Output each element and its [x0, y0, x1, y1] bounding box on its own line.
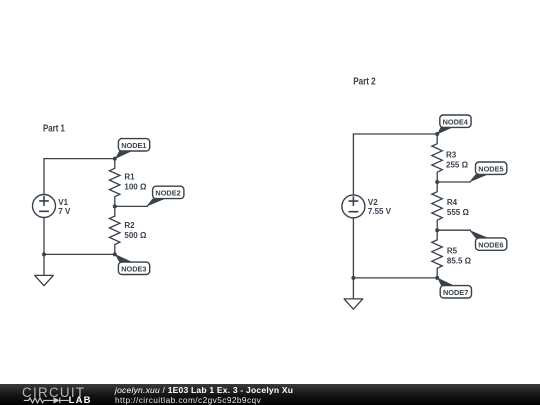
svg-text:255 Ω: 255 Ω — [446, 160, 469, 169]
svg-text:V1: V1 — [58, 198, 68, 207]
svg-text:7 V: 7 V — [58, 207, 71, 216]
svg-text:7.55 V: 7.55 V — [368, 207, 392, 216]
footer bar — [0, 384, 540, 405]
wire: left rail lower part 2 — [352, 218, 354, 278]
node flag NODE2 — [146, 186, 184, 207]
svg-text:R3: R3 — [446, 151, 457, 160]
svg-text:V2: V2 — [368, 198, 378, 207]
wire: bottom rail part 2 — [353, 277, 437, 279]
svg-text:NODE5: NODE5 — [478, 165, 504, 174]
svg-text:555 Ω: 555 Ω — [447, 208, 470, 217]
ground part 1 — [35, 254, 54, 285]
voltage source V2 — [342, 195, 392, 218]
wire: node6 stub — [437, 229, 470, 231]
svg-text:NODE3: NODE3 — [121, 265, 146, 274]
resistor R3 — [432, 134, 469, 182]
voltage source V1 — [33, 195, 71, 218]
wire: node2 stub — [115, 205, 148, 207]
node flag NODE1 — [115, 139, 150, 159]
wire: left rail upper part 1 — [43, 159, 45, 195]
svg-text:85.5 Ω: 85.5 Ω — [447, 256, 472, 265]
node flag NODE5 — [469, 162, 507, 182]
CircuitLab logo — [0, 384, 110, 405]
svg-text:NODE4: NODE4 — [443, 118, 469, 127]
svg-text:Part 1: Part 1 — [43, 124, 65, 135]
node flag NODE3 — [115, 254, 150, 275]
svg-text:NODE1: NODE1 — [121, 141, 147, 150]
junction dots part 2 — [435, 132, 439, 136]
svg-text:Part 2: Part 2 — [353, 76, 376, 87]
svg-text:LAB: LAB — [69, 395, 92, 405]
svg-text:500 Ω: 500 Ω — [124, 231, 147, 240]
wire: left rail upper part 2 — [352, 134, 354, 195]
junction dots part 1 — [113, 157, 117, 161]
resistor R5 — [432, 230, 472, 278]
wire: node5 stub — [437, 181, 470, 183]
resistor R2 — [109, 206, 147, 254]
svg-text:R1: R1 — [124, 173, 135, 182]
svg-text:NODE6: NODE6 — [478, 240, 503, 249]
node flag NODE4 — [437, 115, 471, 134]
wire: top rail part 1 — [44, 158, 115, 160]
resistor R4 — [432, 182, 470, 230]
node flag NODE6 — [469, 230, 507, 250]
ground part 2 — [344, 278, 363, 309]
svg-text:R2: R2 — [124, 221, 135, 230]
svg-text:R4: R4 — [447, 198, 458, 207]
svg-text:NODE7: NODE7 — [443, 288, 468, 297]
wire: top rail part 2 — [353, 133, 437, 135]
svg-text:NODE2: NODE2 — [155, 189, 180, 198]
resistor R1 — [109, 159, 147, 207]
wire: bottom rail part 1 — [44, 253, 115, 255]
node flag NODE7 — [437, 278, 471, 299]
svg-text:R5: R5 — [447, 247, 458, 256]
wire: left rail lower part 1 — [43, 218, 45, 255]
svg-text:100 Ω: 100 Ω — [124, 183, 147, 192]
